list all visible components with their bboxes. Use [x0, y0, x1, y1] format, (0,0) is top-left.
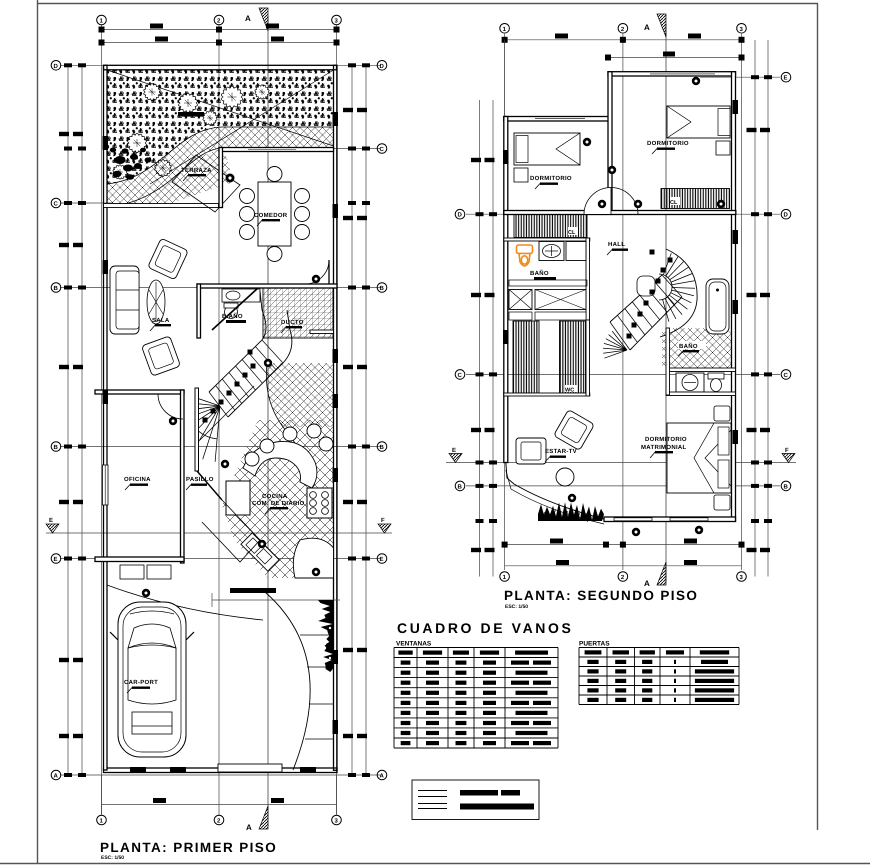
dim tick right chain y=558.5: [348, 557, 356, 561]
car windshield: [128, 624, 176, 648]
right plan row bubble D right: [781, 209, 791, 219]
label CL left: [568, 227, 578, 235]
right plan axis bubble 2 top: [618, 24, 628, 34]
entry step rect 2: [147, 565, 171, 579]
row line C stub right (left plan): [330, 148, 380, 150]
row B wall horizontal: [504, 211, 736, 215]
stair curved fan lower: [173, 395, 220, 462]
svg-text:C: C: [458, 372, 463, 379]
svg-text:D: D: [458, 212, 463, 219]
window left wall oficina: [103, 465, 109, 505]
armchair rotated estar: [554, 410, 595, 451]
right plan axis line 1: [504, 34, 506, 570]
stair tick 3: [219, 400, 224, 405]
right stair tick 2: [644, 301, 649, 306]
svg-text:B: B: [458, 483, 463, 490]
balcony plant foliage: [538, 502, 604, 521]
right stair step 8: [662, 275, 682, 297]
hall door arc left: [584, 188, 611, 215]
driveway joint line 3: [309, 703, 334, 705]
right stair step 3: [625, 309, 645, 335]
stair step 8: [255, 347, 276, 370]
kitchen sink counter diagonal: [241, 533, 279, 571]
right plan staircase diagonal band: [610, 275, 662, 322]
right stair tick 7: [650, 250, 655, 255]
bath cabinet cells: [509, 280, 587, 286]
dimension chain vertical left x=82: [81, 65, 83, 775]
svg-text:E: E: [380, 556, 384, 563]
svg-text:DORMITORIO: DORMITORIO: [647, 140, 689, 147]
label CL right: [670, 197, 680, 205]
right stair core: [637, 276, 655, 296]
svg-text:B: B: [54, 285, 59, 292]
staircase band boundary lower: [228, 310, 292, 417]
closet X box small: [509, 290, 532, 310]
right plan section row line: [446, 462, 796, 464]
svg-text:CAR-PORT: CAR-PORT: [124, 679, 158, 686]
chair estar left: [516, 438, 546, 464]
garden tree 2: [179, 93, 198, 112]
right plan axis bubble 3 bottom: [737, 572, 747, 582]
right plan section flag A top: [657, 14, 666, 37]
right stair tick 3: [650, 290, 655, 295]
window upper-left top wall: [535, 118, 585, 120]
svg-text:CUADRO DE VANOS: CUADRO DE VANOS: [397, 620, 573, 636]
right stair tick 1: [638, 312, 643, 317]
right plan door dot 2: [583, 138, 591, 146]
svg-text:D: D: [380, 63, 385, 70]
section flag A bottom (left plan): [259, 806, 268, 829]
dining chair 6: [295, 225, 310, 240]
dim tick left chain y=65.3: [64, 63, 72, 67]
right plan axis bubble 1 top: [500, 24, 510, 34]
terrace boundary lower wall: [104, 204, 219, 208]
dim tick right chain y=203: [348, 201, 356, 205]
right plan door dot 8: [695, 526, 703, 534]
wall stub below WC: [504, 393, 590, 396]
svg-text:C: C: [54, 201, 59, 208]
svg-text:COCINA: COCINA: [262, 493, 288, 500]
dim text bar right chain y=367: [343, 365, 353, 369]
dim tick left chain y=148.5: [78, 147, 86, 151]
dim text bar right chain y=110: [343, 108, 353, 112]
right plan top wall upper-right block: [608, 72, 736, 76]
right plan section triangle right: [782, 454, 795, 463]
border frame left line: [37, 0, 39, 863]
stair step 5: [236, 366, 256, 390]
puertas table grid: [579, 648, 739, 705]
right plan axis bubble 2 bottom: [618, 572, 628, 582]
svg-text:PLANTA: SEGUNDO PISO: PLANTA: SEGUNDO PISO: [504, 588, 698, 603]
car mirror right: [186, 632, 194, 640]
window tick right plan (732.5,230): [733, 230, 739, 244]
outer wall top (garden): [104, 65, 337, 70]
stair tick 8: [248, 350, 253, 355]
border frame bottom line: [0, 863, 870, 865]
puertas table cell bars: [585, 650, 735, 702]
dim text bar left chain y=245: [59, 243, 69, 247]
row bubble C left side y=203: [51, 198, 61, 208]
svg-text:VENTANAS: VENTANAS: [396, 641, 432, 648]
svg-text:A: A: [54, 773, 59, 780]
dim text bar left chain y=660: [59, 658, 69, 662]
round table estar: [556, 468, 574, 486]
dim tick left chain y=775: [78, 773, 86, 777]
shower square: [566, 242, 586, 261]
entry step rect 1: [120, 565, 144, 579]
stair lower flight steps: [173, 424, 217, 462]
top dim tick x=101.5: [99, 27, 105, 33]
right plan section triangle left: [449, 454, 462, 463]
label WC: [565, 385, 577, 392]
dim tick right chain y=287.5: [348, 286, 356, 290]
right plan row bubble B left: [455, 481, 465, 491]
kitchen stool 5: [245, 452, 259, 466]
svg-text:C: C: [784, 372, 789, 379]
dim tick right chain y=203: [362, 201, 370, 205]
svg-text:E: E: [784, 75, 788, 82]
stair step 6: [242, 360, 262, 384]
bottom window 2: [670, 518, 708, 521]
dim tick right chain y=446.5: [348, 445, 356, 449]
svg-text:COM. DE DIARIO: COM. DE DIARIO: [252, 500, 305, 507]
oficina bottom wall: [95, 557, 184, 562]
door dot 1: [312, 275, 320, 283]
right stair bottom-left fan: [603, 331, 627, 358]
right stair step 1: [610, 322, 630, 350]
axis bubble 1 top (left plan): [97, 15, 107, 25]
right plan axis line 3: [741, 34, 743, 570]
property line left lower: [104, 559, 108, 770]
axis bubble 3 top (left plan): [332, 15, 342, 25]
kitchen stove: [307, 488, 332, 518]
kitchen-hall boundary curve: [266, 363, 298, 447]
garden planting area fill: [107, 70, 334, 184]
dim tick right chain y=65.3: [348, 63, 356, 67]
dim tick right chain y=148.5: [362, 147, 370, 151]
staircase band boundary upper: [209, 291, 266, 392]
svg-text:DORMITORIO: DORMITORIO: [645, 436, 687, 443]
right plan door dot 6: [568, 494, 576, 502]
right plan section flag A bottom: [657, 562, 666, 585]
dim text bar left chain y=134: [59, 132, 69, 136]
door dot 5: [142, 589, 150, 597]
bathroom right left wall: [666, 328, 670, 395]
row bubble B left side y=446.5: [51, 442, 61, 452]
driveway joint line 1: [300, 634, 334, 636]
svg-text:B: B: [380, 444, 385, 451]
right plan left wall: [504, 117, 508, 463]
stair step 4: [229, 373, 249, 397]
toilet orange: [517, 245, 533, 266]
door dot 6: [264, 359, 272, 367]
dim tick left chain y=558.5: [78, 557, 86, 561]
dim tick left chain y=203: [64, 201, 72, 205]
right stair tick 8: [632, 323, 637, 328]
kitchen floor lattice: [222, 420, 334, 578]
right plan door dot 5: [717, 200, 725, 208]
dim tick left chain y=287.5: [64, 286, 72, 290]
right stair step 4: [632, 302, 652, 327]
svg-text:D: D: [54, 63, 59, 70]
axis bubble 1 bottom (left plan): [97, 815, 107, 825]
bottom wall window ticks: [130, 767, 146, 772]
kitchen stool 4: [319, 437, 333, 451]
dining chair 7: [267, 167, 282, 182]
dim text bar left chain y=502: [59, 500, 69, 504]
row bubble D left side y=65.3: [51, 61, 61, 71]
comedor left wall: [219, 148, 223, 208]
kitchen stool 3: [307, 424, 321, 438]
section triangle E right: [378, 524, 391, 533]
right plan row line E top right: [700, 76, 780, 78]
legend bar 1: [460, 790, 498, 796]
garden tree 3: [221, 86, 242, 108]
svg-text:E: E: [49, 517, 53, 524]
bathroom wall below closet: [504, 238, 590, 241]
svg-text:A: A: [380, 773, 385, 780]
bath right crosshatch floor: [662, 328, 732, 368]
stair step 2: [216, 386, 235, 411]
balcony edge: [506, 462, 604, 519]
svg-text:CL: CL: [670, 200, 678, 206]
right plan axis bubble 1 bottom: [500, 572, 510, 582]
wall window ticks left wall: [103, 136, 109, 150]
dim tick right chain y=775: [348, 773, 356, 777]
garden tree 4: [255, 85, 269, 100]
axis line 1 vertical (left plan): [101, 25, 103, 815]
top dimension line 2 (left plan): [102, 42, 337, 44]
right plan door dot 3: [598, 200, 606, 208]
oficina door arc: [158, 394, 183, 419]
hall door arc right: [611, 188, 638, 215]
shrub white speckles: [324, 611, 331, 659]
svg-text:ESC: 1/50: ESC: 1/50: [505, 604, 528, 610]
hall small wall right: [310, 330, 334, 334]
dim tick left chain y=446.5: [64, 445, 72, 449]
right plan row line D: [466, 213, 780, 215]
svg-text:DUCTO: DUCTO: [281, 319, 304, 326]
stair tick 7: [251, 364, 256, 369]
armchair 2: [141, 336, 180, 376]
right plan row bubble C right: [781, 370, 791, 380]
nightstand upper-left room: [514, 168, 528, 182]
entry dimension line: [212, 599, 340, 601]
svg-text:PLANTA: PRIMER PISO: PLANTA: PRIMER PISO: [100, 840, 277, 855]
pasillo bottom diagonal wall: [197, 471, 222, 500]
svg-text:BAÑO: BAÑO: [530, 269, 549, 277]
svg-text:E: E: [54, 556, 58, 563]
label BANO right: [678, 341, 706, 349]
wall window ticks right wall: [333, 112, 339, 126]
garden tree 5: [128, 133, 147, 152]
row bubble C right side y=148.5: [377, 144, 387, 154]
bottom dim text bars: [153, 798, 166, 803]
bano toilet: [225, 306, 238, 319]
svg-text:ESC: 1/50: ESC: 1/50: [101, 855, 124, 861]
car rear window: [132, 712, 172, 734]
door arc into hall: [305, 260, 329, 284]
svg-text:BAÑO: BAÑO: [679, 342, 698, 350]
door dot 2: [169, 417, 177, 425]
svg-text:B: B: [784, 483, 789, 490]
WC strip 1: [513, 321, 539, 393]
row bubble A right side y=775: [377, 770, 387, 780]
svg-text:A: A: [644, 579, 650, 588]
right plan section line A-A: [665, 24, 667, 582]
right stair step 2: [617, 315, 637, 342]
svg-text:PUERTAS: PUERTAS: [579, 641, 610, 648]
dim tick left chain y=446.5: [78, 445, 86, 449]
ventanas table grid: [394, 648, 558, 749]
hall crosshatch landing: [266, 363, 333, 427]
legend bar 3: [460, 804, 534, 810]
right plan secondary top dim: [608, 57, 742, 59]
terrace diagonal platform: [172, 155, 240, 212]
stair step 1: [209, 392, 228, 417]
kitchen stool 2: [283, 427, 297, 441]
right stair inner arc: [659, 274, 672, 300]
right plan axis line 2: [622, 34, 624, 570]
row line B (left plan): [60, 287, 381, 289]
right plan bottom dim line 2: [505, 565, 742, 567]
driveway joint line 2: [307, 666, 334, 668]
border frame top line: [37, 3, 818, 5]
bottom window 1: [614, 518, 652, 521]
right plan top dimension line: [505, 39, 742, 41]
stair tick 4: [227, 391, 232, 396]
car hood line: [130, 611, 174, 614]
right plan left dim chain: [479, 100, 481, 577]
WC strip 2: [560, 321, 586, 393]
stair block top wall: [197, 284, 337, 288]
entry dark bar: [230, 588, 276, 593]
bed dormitorio upper-left: [514, 133, 580, 165]
dim text bar right chain y=218: [343, 216, 353, 220]
svg-text:HALL: HALL: [608, 241, 625, 248]
nightstand matrimonial top: [714, 406, 730, 421]
svg-text:DORMITORIO: DORMITORIO: [530, 175, 572, 182]
dim tick left chain y=148.5: [64, 147, 72, 151]
bano upper fixtures: sink counter: [222, 289, 260, 302]
svg-text:B: B: [380, 285, 385, 292]
top dimension line 1 (left plan): [102, 29, 337, 31]
axis bubble 2 top (left plan): [214, 15, 224, 25]
nightstand upper-right room: [716, 141, 730, 155]
right stair tick 6: [668, 258, 673, 263]
dim text bar right chain y=650: [343, 648, 353, 652]
terrace lower area crosshatch: [107, 148, 233, 208]
dim text bar left chain y=736: [59, 734, 69, 738]
dimension chain vertical right x=352: [351, 65, 353, 775]
row line D (left plan): [60, 64, 381, 66]
row line C stub left (left plan): [60, 202, 112, 204]
row line E (left plan): [60, 558, 381, 560]
entry curve: [107, 585, 263, 620]
svg-text:C: C: [380, 146, 385, 153]
svg-text:CL: CL: [568, 230, 576, 236]
kitchen bar counter curved: [243, 441, 317, 488]
window upper-right top wall: [650, 73, 715, 75]
bedroom divider wall vertical: [608, 72, 612, 215]
right plan row bubble B right: [781, 481, 791, 491]
svg-text:TERRAZA: TERRAZA: [181, 167, 212, 174]
right plan row line C: [466, 373, 780, 375]
right plan row line B: [466, 485, 780, 487]
garden dark shrub cluster: [110, 148, 152, 180]
window tick right plan (503,150): [503, 150, 509, 164]
top dim tick x=336.5: [334, 27, 340, 33]
driveway arc: [265, 592, 310, 770]
legend bar 2: [501, 790, 520, 796]
dim text bar right chain y=502: [343, 500, 353, 504]
window tick right plan (732.5,430): [733, 430, 739, 444]
dimension chain vertical left x=68: [67, 65, 69, 775]
door dot 7: [258, 540, 266, 548]
garden tree 6: [155, 160, 172, 177]
legend thin lines: [418, 791, 447, 809]
row bubble B right side y=287.5: [377, 283, 387, 293]
right plan door dot 9: [608, 166, 616, 174]
dim tick left chain y=775: [64, 773, 72, 777]
gate opening bottom wall: [218, 764, 282, 772]
right plan left upper dim stub: [504, 40, 506, 220]
svg-text:B: B: [54, 444, 59, 451]
svg-text:PASILLO: PASILLO: [186, 476, 214, 483]
axis line 2 vertical (left plan): [218, 25, 220, 815]
oficina right wall: [181, 390, 185, 563]
right stair tick 4: [656, 279, 661, 284]
stair step 9: [262, 340, 283, 363]
stair left wall: [195, 388, 199, 471]
driveway shrub foliage: [318, 600, 334, 672]
svg-text:D: D: [784, 212, 789, 219]
right plan axis bubble 3 top: [737, 24, 747, 34]
right plan bottom dim line 1: [505, 544, 742, 546]
stair tick 1: [203, 418, 208, 423]
axis bubble 3 bottom (left plan): [332, 815, 342, 825]
dim tick left chain y=203: [78, 201, 86, 205]
window tick right plan (503,330): [503, 330, 509, 344]
right plan door dot 1: [692, 77, 700, 85]
closet stripes right (CL): [661, 189, 730, 209]
svg-text:B.AÑO: B.AÑO: [222, 312, 243, 320]
closet X box large: [535, 290, 586, 310]
armchair 1: [148, 238, 189, 280]
sofa SALA: [110, 266, 139, 334]
dining chair 4: [295, 207, 310, 222]
plant decor sala: [147, 280, 165, 324]
driveway joint line 4: [305, 738, 334, 740]
dim tick right chain y=65.3: [362, 63, 370, 67]
right stair tick 9: [627, 334, 632, 339]
bed dormitorio upper-right: [667, 106, 730, 138]
row bubble B left side y=287.5: [51, 283, 61, 293]
dim tick right chain y=148.5: [348, 147, 356, 151]
right plan row bubble D left: [455, 209, 465, 219]
right plan door dot 7: [632, 528, 640, 536]
right stair turn fan: [663, 253, 695, 321]
garden diagonal line 2: [150, 70, 334, 184]
door dot 3: [221, 460, 229, 468]
comedor top wall: [219, 148, 334, 152]
dim text bar right chain y=736: [343, 734, 353, 738]
right plan top wall upper-left block: [504, 117, 611, 122]
stair block left wall: [197, 284, 201, 338]
dining chair 2: [295, 189, 310, 204]
svg-text:A: A: [245, 14, 251, 23]
car roof: [128, 645, 176, 704]
